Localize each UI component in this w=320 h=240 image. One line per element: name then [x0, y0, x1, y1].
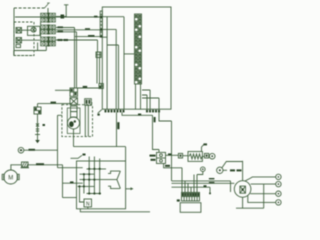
- label coil drop vertical: [154, 117, 156, 122]
- wire distributor top: [242, 161, 244, 181]
- flasher fork symbol: [108, 171, 120, 189]
- connector C1 (fuse block row 1): [41, 13, 56, 23]
- wire C8 to enclosure: [91, 102, 92, 104]
- terminal sq 1: [178, 153, 182, 158]
- wire internal 1: [102, 29, 116, 109]
- flasher unit box: [77, 161, 126, 209]
- igniter connector comb: [182, 192, 200, 201]
- wire C7 to resistor: [166, 154, 179, 156]
- wire to coil top: [208, 155, 211, 157]
- label B/W 4: [83, 86, 88, 88]
- ballast resistor R1: [188, 152, 202, 162]
- motor M1: [68, 117, 80, 129]
- node B callout: [71, 155, 83, 158]
- wire dashed feed line: [14, 7, 45, 9]
- park switch box: [71, 106, 78, 112]
- wire ECU pin drop: [116, 112, 118, 146]
- switch contact S3: [70, 98, 78, 105]
- stub dot: [209, 192, 211, 194]
- starter motor M2: [2, 170, 19, 184]
- wire connector feed 1: [164, 164, 182, 193]
- wire internal 5: [142, 90, 150, 109]
- plug wire 4: [248, 196, 276, 203]
- wire stub fuse F1 top: [47, 8, 49, 13]
- wire main drop left: [58, 115, 62, 167]
- stub with dot: [209, 187, 211, 192]
- igniter body: [180, 203, 201, 213]
- wire feed flasher mid: [63, 182, 83, 184]
- arrowhead: [131, 187, 134, 190]
- node 2 callout under ECU: [98, 110, 102, 114]
- wire condenser drop: [197, 172, 203, 175]
- wire coil HT lead: [222, 162, 243, 168]
- wire to ECU pin 3: [75, 36, 102, 38]
- label under callout: [97, 114, 99, 116]
- spark plug 1: [276, 174, 281, 179]
- plug wire 2: [251, 183, 276, 185]
- wire feed flasher top: [58, 167, 83, 169]
- diode matrix horizontals: [78, 169, 117, 194]
- ECU bottom pin row left: [105, 110, 125, 113]
- relay box N: [84, 199, 92, 207]
- label wire colour vertical: [117, 122, 119, 129]
- wire relay drop: [37, 43, 39, 51]
- wire block links: [40, 22, 42, 37]
- wire H left: [55, 89, 70, 91]
- diode matrix verticals: [84, 167, 100, 194]
- condenser circle: [201, 167, 206, 172]
- label DIST: [230, 169, 242, 171]
- ground G1: [35, 140, 40, 143]
- ECU connector strip J1: [135, 14, 142, 84]
- switch S1 contact: [16, 28, 22, 34]
- ECU inner partition: [102, 17, 124, 110]
- label B/W 7: [36, 163, 44, 165]
- diode matrix left drop: [80, 186, 85, 202]
- wire H to ECU: [78, 87, 100, 89]
- connector C3 (fuse block row 3): [41, 36, 56, 46]
- ignition coil circle: [217, 167, 223, 173]
- node A callout arrow: [45, 3, 50, 8]
- wire to ballast: [183, 155, 188, 157]
- plug return riser: [263, 184, 265, 208]
- wire main feed to ECU: [15, 16, 102, 18]
- wire motor down to junction: [73, 129, 75, 147]
- spark plug 2: [276, 181, 281, 186]
- wire bottom return: [14, 46, 47, 56]
- wire dashed bottom: [14, 55, 34, 57]
- label W/B 2: [64, 39, 69, 41]
- wire plug lead row 2: [172, 183, 235, 192]
- label B/W 3: [88, 35, 95, 37]
- wire coil side: [223, 169, 227, 171]
- label B 8: [70, 181, 74, 183]
- wire C3 W/B branch: [56, 40, 98, 52]
- label A2: [204, 143, 208, 145]
- wire plug lead row 3: [172, 187, 211, 192]
- label B/W: [58, 26, 64, 28]
- connector C6: [34, 107, 41, 114]
- label B: [94, 16, 98, 18]
- wire comb feeds: [194, 175, 197, 193]
- wire N drop: [87, 207, 89, 209]
- label B/W 6: [29, 149, 36, 151]
- coil terminal circle: [209, 153, 215, 159]
- label after C7: [168, 153, 172, 155]
- wire bus down: [63, 165, 77, 198]
- wire left vertical bus: [13, 8, 15, 56]
- wire internal 2: [102, 36, 107, 38]
- label LG/B: [58, 31, 64, 33]
- wire plug lead row 1: [172, 168, 231, 193]
- wire internal 2b: [107, 45, 118, 109]
- wire after ballast: [202, 155, 204, 157]
- label callout B: [83, 154, 86, 156]
- connector C5 on ECU edge: [99, 84, 103, 89]
- wire inside enclosure right: [85, 105, 88, 137]
- terminal T1: [56, 5, 68, 19]
- relay coil K1: [16, 45, 21, 48]
- wire lamp to switch: [22, 29, 32, 31]
- diode D1: [36, 124, 39, 127]
- label B/W 9: [150, 155, 156, 157]
- connector C4: [96, 52, 101, 58]
- plug wire 3: [250, 193, 275, 195]
- circled terminal 2: [18, 147, 24, 153]
- wire C2 branch B/W: [56, 28, 75, 89]
- wire ground run: [80, 209, 150, 212]
- svg-text:N: N: [86, 201, 90, 207]
- wire washer feed: [38, 104, 73, 107]
- connector C7 (coil feed): [157, 152, 166, 163]
- wire distributor bottom: [236, 197, 264, 208]
- distributor: [234, 181, 251, 198]
- resistor callout: [202, 144, 205, 151]
- relay box dashed enclosure: [14, 22, 34, 56]
- terminal block C8: [85, 99, 92, 106]
- wire terminal right: [24, 149, 58, 151]
- ECU left pin strip: [100, 11, 103, 38]
- wiper motor dashed enclosure: [62, 105, 93, 137]
- labels lead rows: [204, 178, 215, 187]
- spark plug 3: [276, 191, 281, 196]
- plug wire 1: [245, 177, 276, 181]
- lamp L1: [31, 27, 36, 32]
- label B arrow: [177, 199, 180, 201]
- diode matrix risers: [89, 157, 100, 167]
- connector C2 (fuse block row 2): [41, 24, 56, 34]
- label B/W on ECU feed: [85, 28, 90, 30]
- wire internal 7: [142, 98, 159, 109]
- wire C2 branch 2: [56, 32, 77, 88]
- lamp L1 housing: [28, 26, 41, 35]
- wire link to bus: [28, 164, 63, 166]
- ECU bottom pin row right: [146, 110, 160, 113]
- park switch box 2: [71, 112, 78, 118]
- wire motor to link: [11, 165, 22, 170]
- connector H (harness): [70, 88, 78, 96]
- wire internal 6: [142, 95, 147, 109]
- wire junction to flasher corner: [74, 147, 126, 161]
- svg-text:M: M: [8, 175, 13, 181]
- wire igniter feed from ECU: [159, 112, 172, 167]
- fusible link F2: [21, 162, 30, 168]
- label B/W 10: [151, 159, 156, 161]
- wire internal 3: [124, 53, 134, 55]
- wire C2 to ECU: [56, 29, 102, 31]
- terminal sq 2: [205, 153, 209, 158]
- ECU main box U1: [102, 7, 171, 109]
- spark plug 4: [276, 200, 281, 205]
- switch S2 contact: [16, 38, 22, 44]
- resistor ticks: [36, 129, 39, 131]
- bar: [35, 134, 40, 136]
- label B/W 5: [51, 102, 57, 104]
- wire internal 4: [136, 84, 141, 109]
- wire C4 down pair: [97, 58, 100, 84]
- wire coil feed drop: [153, 115, 160, 152]
- label W 11: [165, 165, 170, 167]
- label at jog: [138, 114, 141, 116]
- motor M1 armature frame: [67, 108, 80, 134]
- wire switch S2 to C3: [22, 39, 41, 41]
- wire sensor chain: [37, 114, 39, 140]
- wire ECU pin jog to coil drop: [122, 112, 153, 115]
- label W/B: [58, 39, 63, 41]
- label a: [43, 124, 46, 126]
- diode dots: [78, 168, 100, 195]
- wire output arrow: [126, 188, 131, 190]
